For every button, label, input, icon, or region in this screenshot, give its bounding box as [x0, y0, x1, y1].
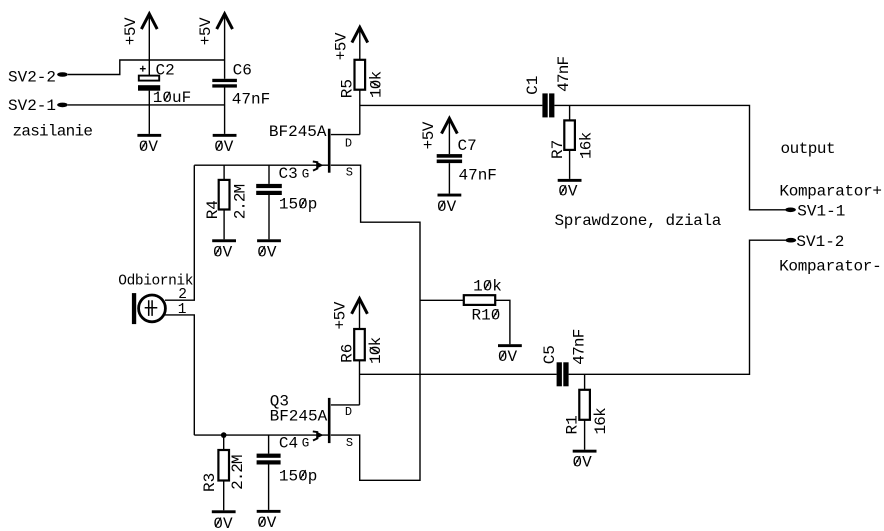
svg-text:R7: R7	[549, 140, 567, 159]
svg-text:BF245A: BF245A	[270, 408, 328, 426]
svg-text:10uF: 10uF	[153, 89, 191, 107]
svg-text:R1: R1	[564, 415, 582, 434]
svg-text:0V: 0V	[139, 138, 159, 156]
svg-text:R6: R6	[339, 344, 357, 363]
svg-text:150p: 150p	[279, 467, 317, 485]
svg-text:+5V: +5V	[122, 17, 140, 45]
svg-text:0V: 0V	[437, 198, 457, 216]
svg-text:C1: C1	[524, 76, 542, 95]
svg-text:R5: R5	[339, 79, 357, 98]
svg-text:0V: 0V	[213, 243, 233, 261]
svg-text:C5: C5	[541, 345, 559, 364]
svg-text:0V: 0V	[573, 453, 593, 471]
svg-text:D: D	[345, 136, 352, 150]
svg-text:C2: C2	[156, 61, 175, 79]
svg-text:C7: C7	[458, 137, 477, 155]
svg-text:G: G	[302, 437, 310, 451]
svg-text:47nF: 47nF	[570, 329, 588, 364]
svg-text:SV2-2: SV2-2	[8, 69, 56, 87]
svg-text:zasilanie: zasilanie	[13, 123, 93, 141]
svg-text:47nF: 47nF	[555, 56, 573, 91]
svg-text:47nF: 47nF	[459, 166, 497, 184]
svg-text:R3: R3	[201, 473, 219, 492]
svg-text:output: output	[781, 140, 836, 158]
svg-text:Komparator+: Komparator+	[779, 183, 881, 201]
svg-text:1: 1	[178, 302, 187, 318]
svg-text:16k: 16k	[592, 408, 610, 435]
svg-text:+5V: +5V	[332, 32, 350, 60]
svg-text:G: G	[302, 168, 310, 182]
svg-text:2: 2	[178, 287, 187, 303]
svg-text:0V: 0V	[257, 243, 277, 261]
svg-text:S: S	[346, 436, 353, 450]
svg-text:C6: C6	[233, 61, 252, 79]
svg-text:Komparator-: Komparator-	[779, 258, 881, 276]
svg-text:R4: R4	[204, 200, 222, 219]
svg-text:D: D	[345, 405, 352, 419]
svg-text:SV1-1: SV1-1	[797, 203, 845, 221]
svg-text:150p: 150p	[279, 196, 317, 214]
svg-text:0V: 0V	[213, 515, 233, 531]
svg-text:+5V: +5V	[197, 17, 215, 45]
svg-text:SV2-1: SV2-1	[8, 97, 56, 115]
svg-text:2.2M: 2.2M	[229, 455, 247, 490]
svg-text:+5V: +5V	[420, 121, 438, 149]
svg-text:Sprawdzone, dziala: Sprawdzone, dziala	[555, 212, 722, 230]
svg-text:16k: 16k	[578, 132, 596, 159]
svg-text:C4: C4	[279, 434, 298, 452]
svg-text:0V: 0V	[214, 138, 234, 156]
svg-text:+5V: +5V	[332, 301, 350, 329]
svg-text:0V: 0V	[257, 514, 277, 531]
svg-text:S: S	[346, 165, 353, 179]
svg-text:C3: C3	[279, 165, 298, 183]
svg-text:0V: 0V	[558, 183, 578, 201]
svg-text:BF245A: BF245A	[269, 123, 327, 141]
svg-text:47nF: 47nF	[232, 90, 270, 108]
svg-text:R10: R10	[472, 306, 501, 324]
svg-text:2.2M: 2.2M	[232, 184, 250, 219]
svg-text:SV1-2: SV1-2	[796, 233, 844, 251]
svg-text:0V: 0V	[498, 348, 518, 366]
svg-text:10k: 10k	[473, 278, 502, 296]
